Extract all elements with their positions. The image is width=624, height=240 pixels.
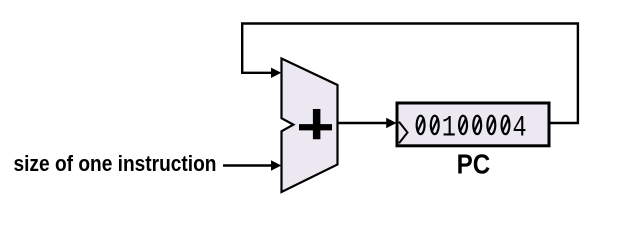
wire: PC output feedback loop (right, up, across top, down)	[242, 24, 578, 124]
svg-text:4: 4	[513, 112, 527, 145]
register PC box	[397, 103, 549, 146]
wire: size-of-instruction input arrow	[223, 164, 272, 166]
wire: arrowhead into adder upper input	[271, 68, 281, 78]
svg-text:size of one instruction: size of one instruction	[13, 152, 216, 177]
wire: adder output to PC with arrowhead	[338, 122, 388, 124]
plus symbol inside adder	[299, 109, 332, 139]
zero digit cells at centers	[417, 116, 425, 135]
PC value 00100004 (slashed zeros drawn as shapes)	[417, 116, 510, 135]
adder U1 (ALU shape with +)	[282, 59, 338, 193]
clock edge triangle on PC	[399, 122, 408, 143]
svg-text:1: 1	[442, 112, 456, 145]
svg-text:PC: PC	[457, 148, 491, 180]
